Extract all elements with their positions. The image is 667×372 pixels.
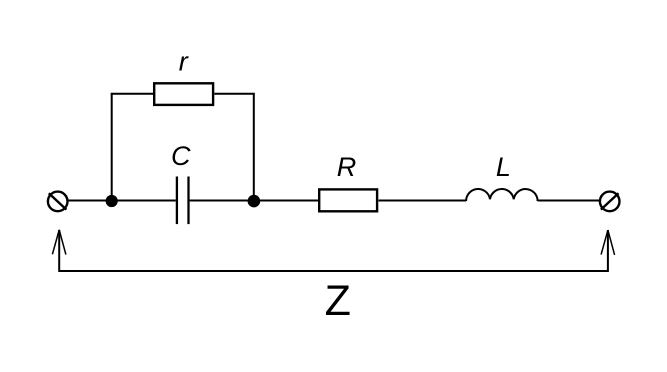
svg-text:R: R [337, 152, 357, 182]
svg-text:L: L [496, 152, 511, 182]
svg-text:Z: Z [325, 277, 351, 325]
svg-text:r: r [179, 47, 189, 77]
svg-text:C: C [171, 141, 191, 171]
